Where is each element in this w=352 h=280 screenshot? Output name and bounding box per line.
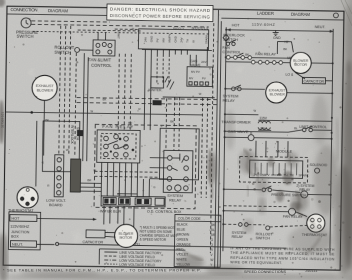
- svg-text:HOT: HOT: [232, 23, 241, 27]
- svg-text:GND: GND: [273, 36, 281, 40]
- svg-text:SWITCH: SWITCH: [17, 34, 34, 39]
- svg-text:BK: BK: [245, 53, 249, 57]
- svg-text:PV: PV: [202, 76, 206, 80]
- svg-text:CAPACITOR: CAPACITOR: [303, 79, 324, 83]
- svg-text:115V/60HZ: 115V/60HZ: [10, 225, 30, 229]
- svg-text:FAN &LIMIT: FAN &LIMIT: [88, 57, 111, 62]
- svg-text:R: R: [47, 184, 49, 188]
- svg-text:GREEN: GREEN: [177, 238, 189, 242]
- svg-text:BR: BR: [211, 233, 216, 237]
- svg-text:24V: 24V: [260, 127, 267, 131]
- svg-text:BLOWER: BLOWER: [270, 92, 286, 96]
- svg-text:CAPACITOR: CAPACITOR: [82, 240, 103, 244]
- svg-text:G: G: [42, 161, 44, 165]
- svg-text:W: W: [90, 109, 93, 113]
- svg-text:BK: BK: [103, 97, 107, 101]
- svg-text:CONNECTION: CONNECTION: [10, 7, 37, 12]
- svg-text:BL: BL: [117, 192, 121, 196]
- svg-text:CONTROL: CONTROL: [222, 50, 241, 54]
- svg-text:J46111: J46111: [305, 268, 318, 273]
- svg-text:PIGGLY: PIGGLY: [173, 27, 184, 31]
- svg-text:BOX: BOX: [11, 235, 19, 239]
- svg-text:COLOR CODE: COLOR CODE: [178, 217, 202, 221]
- svg-text:WIRE OR ITS EQUIVALENT.: WIRE OR ITS EQUIVALENT.: [230, 260, 282, 265]
- svg-text:BR: BR: [128, 121, 132, 125]
- svg-text:MV: MV: [189, 76, 193, 80]
- svg-text:BK: BK: [170, 119, 174, 123]
- svg-text:MV: MV: [161, 38, 165, 42]
- svg-text:GND: GND: [173, 36, 177, 42]
- svg-text:CONTROL: CONTROL: [91, 63, 112, 68]
- svg-text:FAN: FAN: [222, 46, 230, 50]
- svg-text:Y: Y: [142, 189, 144, 193]
- svg-text:INTERLOCK: INTERLOCK: [70, 125, 74, 145]
- svg-text:G: G: [153, 185, 155, 189]
- svg-text:SWITCH: SWITCH: [256, 236, 271, 240]
- svg-text:RELAY: RELAY: [232, 235, 244, 239]
- svg-text:R: R: [250, 131, 252, 135]
- svg-text:BK: BK: [45, 118, 49, 122]
- svg-text:NEUT.: NEUT.: [315, 25, 326, 29]
- svg-text:SWITCH: SWITCH: [223, 38, 238, 42]
- svg-text:BLUE: BLUE: [177, 228, 186, 232]
- svg-text:BK: BK: [283, 47, 287, 51]
- svg-text:BOARD: BOARD: [49, 203, 63, 207]
- svg-text:DIAGRAM: DIAGRAM: [48, 8, 68, 13]
- svg-text:W: W: [199, 92, 202, 96]
- svg-text:W # BK BL R: W # BK BL R: [100, 209, 121, 213]
- svg-text:LO &: LO &: [285, 73, 294, 77]
- svg-text:LOW VOLTAGE FIELD: LOW VOLTAGE FIELD: [119, 263, 155, 268]
- svg-text:TH: TH: [185, 39, 189, 43]
- svg-text:SWITCH: SWITCH: [54, 50, 71, 55]
- svg-text:SPARK: SPARK: [299, 173, 309, 177]
- svg-text:LADDER: LADDER: [257, 11, 274, 16]
- svg-text:RELAY: RELAY: [169, 198, 182, 202]
- svg-text:NEUT.: NEUT.: [12, 243, 23, 247]
- svg-text:24V: 24V: [201, 60, 206, 64]
- svg-text:BL: BL: [211, 228, 215, 232]
- svg-text:FAN RELAY: FAN RELAY: [255, 52, 276, 56]
- svg-text:SPARK: SPARK: [204, 35, 208, 44]
- svg-text:MV PV: MV PV: [191, 70, 200, 74]
- svg-text:BL: BL: [294, 126, 298, 130]
- svg-text:MOTOR: MOTOR: [120, 236, 133, 240]
- svg-text:BR: BR: [87, 178, 91, 182]
- svg-text:GND: GND: [149, 36, 153, 42]
- svg-text:YEL: YEL: [134, 242, 140, 246]
- svg-text:MV/PV: MV/PV: [167, 34, 171, 43]
- svg-text:115V: 115V: [259, 116, 267, 120]
- svg-text:BLOWER: BLOWER: [37, 88, 54, 92]
- svg-text:W: W: [253, 109, 256, 113]
- svg-text:HOT: HOT: [11, 217, 20, 221]
- svg-text:PV: PV: [155, 38, 159, 42]
- svg-text:PV: PV: [266, 173, 270, 177]
- svg-text:W: W: [191, 40, 195, 43]
- svg-text:24V: 24V: [143, 37, 147, 42]
- svg-text:24V: 24V: [179, 37, 183, 42]
- svg-text:ORANGE: ORANGE: [176, 243, 191, 247]
- svg-text:RELAY: RELAY: [223, 99, 236, 103]
- svg-text:BLACK: BLACK: [177, 223, 189, 227]
- svg-text:HI: HI: [284, 40, 288, 44]
- svg-text:BROWN: BROWN: [177, 233, 190, 237]
- svg-text:& SPEED MOTOR: & SPEED MOTOR: [140, 237, 167, 241]
- svg-text:115V-60HZ: 115V-60HZ: [252, 23, 276, 27]
- svg-text:DIAGRAM: DIAGRAM: [291, 12, 310, 17]
- svg-text:W: W: [66, 148, 69, 152]
- svg-text:O.D. CONTROL BOX: O.D. CONTROL BOX: [147, 210, 182, 215]
- svg-text:BL: BL: [94, 168, 98, 172]
